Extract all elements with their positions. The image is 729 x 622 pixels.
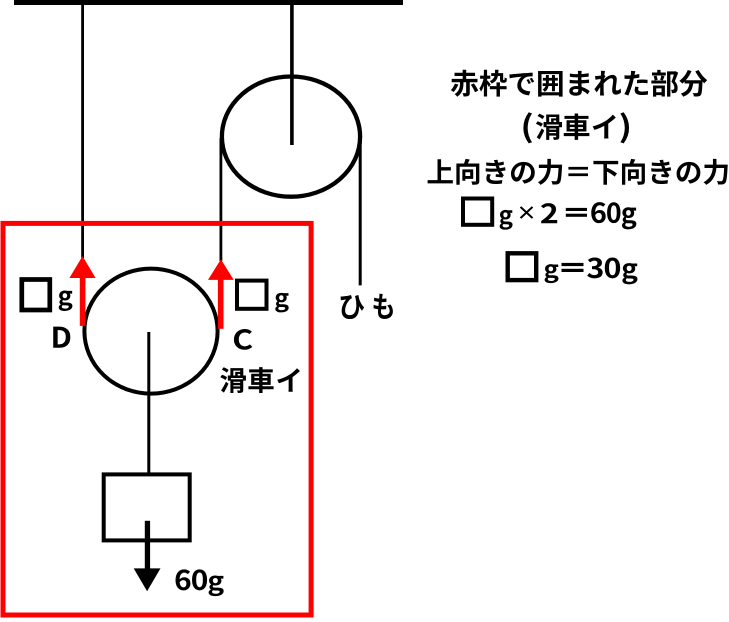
box symbol in equation 1 — [463, 199, 492, 225]
box symbol in equation 2 — [508, 253, 537, 280]
arrow red up-force left (D) — [69, 256, 95, 326]
fixed pulley — [222, 77, 360, 197]
text line1 赤枠で囲まれた部分 — [451, 70, 707, 97]
equation2 g — [545, 257, 638, 284]
label D — [53, 327, 70, 348]
arrow downward force 60g — [134, 521, 161, 592]
arrow red up-force right (C) — [208, 259, 234, 329]
box symbol right unknown weight — [237, 281, 267, 309]
text line3 上向きの力＝下向きの力 — [428, 159, 728, 185]
equation1 g — [500, 202, 637, 230]
label 60g under weight — [176, 569, 224, 596]
text line2 (滑車イ) — [523, 112, 629, 143]
label rope ひも — [341, 294, 393, 319]
wire center rope ceiling to fixed pulley axle — [290, 5, 294, 145]
equals sign equation 2 — [562, 263, 584, 272]
movable pulley (pulley イ) — [84, 269, 217, 394]
ceiling bar — [14, 0, 403, 5]
label pulley 滑車イ — [220, 367, 300, 393]
label C — [234, 329, 252, 350]
label g left — [59, 291, 73, 311]
equals sign equation 1 — [566, 208, 587, 217]
wire rope fixed pulley left down to movable pulley arrow C — [219, 138, 222, 261]
label g right — [275, 293, 288, 313]
wire left rope from ceiling to arrow D — [81, 5, 84, 258]
wire from movable pulley center down to weight — [147, 332, 150, 474]
wire rope fixed pulley right hanging end (ひも) — [359, 138, 362, 285]
box symbol left unknown weight — [22, 280, 50, 311]
weight block — [104, 474, 190, 540]
red frame box — [3, 223, 311, 615]
